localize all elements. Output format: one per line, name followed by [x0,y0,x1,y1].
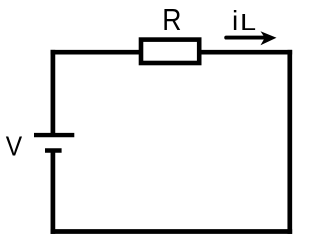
resistor R [141,40,199,63]
battery source V: short plate (negative) [45,148,62,152]
svg-text:i: i [232,5,238,36]
svg-text:V: V [6,130,23,161]
wire right [287,50,292,234]
battery source V: long plate (positive) [34,133,74,137]
wire left upper [51,50,56,135]
wire top [51,50,293,55]
current arrow shaft [226,36,266,40]
wire bottom [51,229,293,234]
svg-text:R: R [162,2,181,37]
svg-text:L: L [240,9,256,35]
current arrow head [261,31,277,45]
wire left lower [51,151,56,234]
